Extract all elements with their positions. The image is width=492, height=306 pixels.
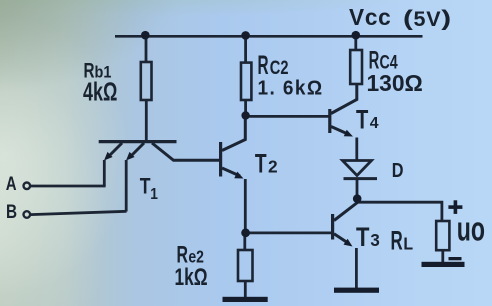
svg-text:L: L [403,234,413,254]
svg-text:T: T [356,223,370,252]
svg-text:(: ( [403,5,413,30]
svg-text:3: 3 [370,230,380,251]
svg-text:): ) [441,5,451,30]
svg-text:R: R [258,49,269,80]
svg-text:uo: uo [457,210,485,249]
svg-text:4: 4 [370,115,379,132]
svg-text:4kΩ: 4kΩ [83,77,117,106]
svg-text:1. 6kΩ: 1. 6kΩ [258,77,324,100]
svg-text:130Ω: 130Ω [367,69,423,95]
svg-text:1: 1 [150,187,158,204]
svg-text:C2: C2 [270,56,289,79]
svg-text:5V: 5V [414,7,442,31]
svg-text:2: 2 [268,157,278,177]
svg-text:A: A [6,172,17,194]
svg-text:R: R [391,225,403,255]
svg-text:Vcc: Vcc [349,4,392,30]
svg-text:T: T [356,105,369,134]
svg-text:D: D [392,158,404,181]
svg-text:1kΩ: 1kΩ [175,264,208,290]
svg-text:B: B [6,200,17,222]
svg-text:T: T [255,148,267,178]
